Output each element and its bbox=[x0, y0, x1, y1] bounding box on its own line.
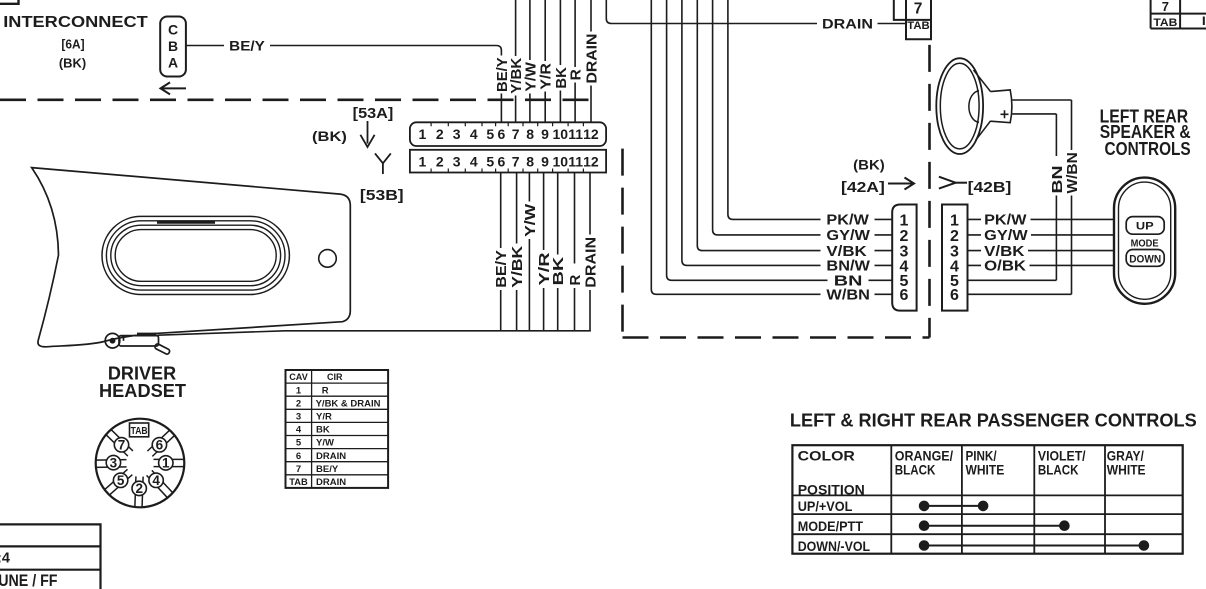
svg-text:TUNE / FF: TUNE / FF bbox=[0, 571, 58, 589]
svg-text:GY/W: GY/W bbox=[826, 228, 870, 244]
svg-text:DOWN: DOWN bbox=[1129, 254, 1161, 266]
svg-text:2: 2 bbox=[296, 398, 301, 409]
svg-text:4: 4 bbox=[152, 473, 160, 488]
svg-text:C: C bbox=[168, 22, 178, 38]
svg-text:5: 5 bbox=[117, 473, 125, 488]
svg-text:9: 9 bbox=[541, 153, 549, 169]
svg-text:PK/W: PK/W bbox=[984, 213, 1027, 229]
svg-text:LEFT & RIGHT REAR PASSENGER CO: LEFT & RIGHT REAR PASSENGER CONTROLS bbox=[790, 409, 1197, 430]
svg-text:V/BK: V/BK bbox=[826, 244, 867, 260]
svg-text:(BK): (BK) bbox=[853, 157, 885, 172]
svg-text:INTERCONNECT: INTERCONNECT bbox=[3, 14, 148, 31]
svg-text:(BK): (BK) bbox=[312, 129, 347, 144]
svg-text:6: 6 bbox=[900, 287, 909, 304]
svg-text:12: 12 bbox=[583, 153, 599, 169]
svg-text:1: 1 bbox=[296, 385, 302, 396]
svg-text:DRAIN: DRAIN bbox=[316, 451, 346, 462]
svg-text:Y/W: Y/W bbox=[522, 203, 539, 237]
svg-text:[53B]: [53B] bbox=[360, 188, 404, 204]
svg-text:6: 6 bbox=[498, 126, 506, 142]
svg-text:3: 3 bbox=[453, 126, 461, 142]
svg-text:BK: BK bbox=[550, 257, 567, 286]
svg-text:CIR: CIR bbox=[327, 372, 343, 383]
svg-text:5: 5 bbox=[486, 153, 494, 169]
svg-text:[42B]: [42B] bbox=[968, 180, 1012, 196]
svg-text:[6A]: [6A] bbox=[61, 36, 84, 51]
svg-text:1: 1 bbox=[162, 456, 170, 471]
svg-text:DRAIN: DRAIN bbox=[316, 477, 346, 488]
svg-text:11: 11 bbox=[568, 153, 583, 169]
svg-text:DRAIN: DRAIN bbox=[584, 34, 601, 84]
svg-text:POSITION: POSITION bbox=[798, 482, 865, 498]
svg-text:4: 4 bbox=[296, 425, 302, 436]
svg-text:12: 12 bbox=[583, 126, 599, 142]
svg-text:Y/BK: Y/BK bbox=[509, 246, 526, 288]
svg-text::4: :4 bbox=[0, 551, 10, 567]
svg-text:R: R bbox=[567, 275, 584, 286]
svg-text:2: 2 bbox=[436, 153, 444, 169]
svg-text:7: 7 bbox=[296, 464, 301, 475]
svg-text:1: 1 bbox=[950, 212, 959, 229]
svg-text:11: 11 bbox=[568, 126, 583, 142]
svg-text:CONTROLS: CONTROLS bbox=[1105, 138, 1191, 159]
svg-text:6: 6 bbox=[156, 438, 164, 453]
svg-text:BLACK: BLACK bbox=[895, 462, 936, 478]
svg-text:3: 3 bbox=[453, 153, 461, 169]
svg-text:1: 1 bbox=[900, 212, 909, 229]
svg-text:7: 7 bbox=[1162, 0, 1169, 14]
svg-text:7: 7 bbox=[914, 1, 923, 18]
svg-text:BE/Y: BE/Y bbox=[493, 250, 510, 288]
svg-text:W/BN: W/BN bbox=[1064, 152, 1081, 193]
svg-text:8: 8 bbox=[526, 153, 534, 169]
svg-text:BLACK: BLACK bbox=[1038, 462, 1079, 478]
svg-text:UP: UP bbox=[1136, 220, 1154, 232]
svg-text:COLOR: COLOR bbox=[798, 447, 855, 463]
svg-text:DOWN/-VOL: DOWN/-VOL bbox=[798, 538, 871, 554]
svg-text:BK: BK bbox=[316, 425, 330, 436]
svg-text:GY/W: GY/W bbox=[984, 228, 1028, 244]
svg-text:7: 7 bbox=[512, 153, 520, 169]
svg-text:BE/Y: BE/Y bbox=[229, 37, 265, 53]
svg-text:TAB: TAB bbox=[1153, 17, 1177, 29]
svg-text:6: 6 bbox=[296, 451, 301, 462]
svg-text:2: 2 bbox=[950, 228, 959, 245]
svg-text:5: 5 bbox=[296, 438, 302, 449]
svg-text:UP/+VOL: UP/+VOL bbox=[798, 498, 853, 514]
svg-text:2: 2 bbox=[900, 228, 909, 245]
svg-text:TAB: TAB bbox=[907, 20, 930, 32]
svg-text:(BK): (BK) bbox=[59, 56, 86, 71]
svg-text:HEADSET: HEADSET bbox=[99, 380, 187, 401]
svg-text:TAB: TAB bbox=[131, 425, 148, 437]
svg-text:[53A]: [53A] bbox=[353, 106, 394, 122]
svg-text:4: 4 bbox=[470, 153, 478, 169]
svg-text:9: 9 bbox=[541, 126, 549, 142]
svg-text:TAB: TAB bbox=[289, 477, 308, 488]
svg-text:MODE/PTT: MODE/PTT bbox=[798, 518, 864, 534]
svg-text:2: 2 bbox=[135, 481, 143, 496]
svg-text:7: 7 bbox=[118, 438, 126, 453]
svg-text:CAV: CAV bbox=[289, 372, 308, 383]
svg-text:10: 10 bbox=[553, 126, 569, 142]
svg-text:V/BK: V/BK bbox=[984, 244, 1025, 260]
svg-text:1: 1 bbox=[419, 153, 427, 169]
svg-text:Y/R: Y/R bbox=[316, 412, 332, 423]
svg-text:Y/BK & DRAIN: Y/BK & DRAIN bbox=[316, 398, 381, 409]
svg-text:WHITE: WHITE bbox=[966, 462, 1005, 478]
svg-text:B: B bbox=[168, 38, 178, 54]
svg-text:MODE: MODE bbox=[1131, 237, 1159, 249]
svg-text:4: 4 bbox=[470, 126, 478, 142]
svg-text:3: 3 bbox=[110, 455, 118, 470]
svg-text:6: 6 bbox=[498, 153, 506, 169]
svg-text:2: 2 bbox=[436, 126, 444, 142]
svg-text:Y/W: Y/W bbox=[316, 438, 334, 449]
svg-text:PK/W: PK/W bbox=[826, 213, 869, 229]
svg-text:DRAIN: DRAIN bbox=[583, 237, 600, 288]
svg-text:BE/Y: BE/Y bbox=[316, 464, 339, 475]
svg-text:10: 10 bbox=[553, 153, 569, 169]
svg-text:R: R bbox=[568, 69, 585, 80]
svg-text:WHITE: WHITE bbox=[1107, 462, 1146, 478]
svg-text:6: 6 bbox=[950, 287, 959, 304]
svg-text:[42A]: [42A] bbox=[841, 180, 885, 196]
svg-text:O/BK: O/BK bbox=[984, 259, 1027, 275]
svg-text:R: R bbox=[322, 385, 329, 396]
svg-text:7: 7 bbox=[512, 126, 520, 142]
svg-text:W/BN: W/BN bbox=[826, 288, 870, 304]
svg-text:1: 1 bbox=[419, 126, 427, 142]
svg-text:BN/W: BN/W bbox=[826, 259, 870, 275]
svg-text:8: 8 bbox=[526, 126, 534, 142]
svg-text:A: A bbox=[168, 55, 178, 71]
svg-text:DRAIN: DRAIN bbox=[822, 15, 873, 31]
svg-text:3: 3 bbox=[296, 412, 301, 423]
svg-text:5: 5 bbox=[486, 126, 494, 142]
